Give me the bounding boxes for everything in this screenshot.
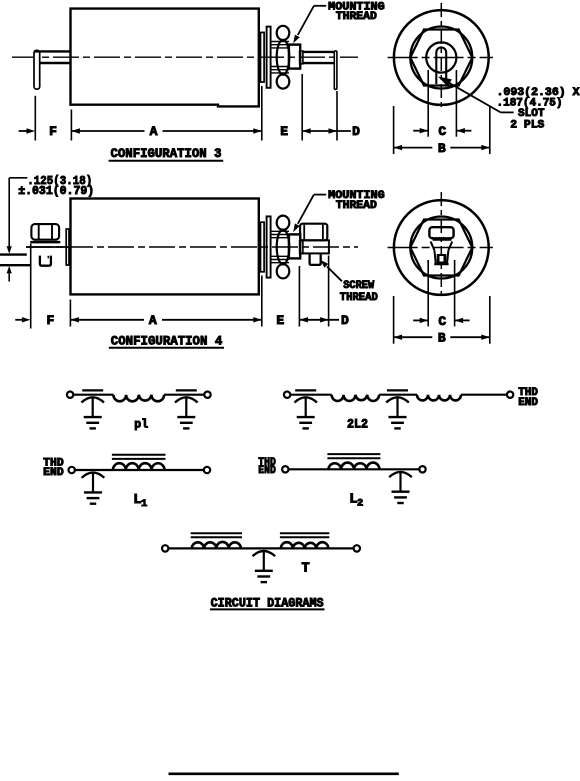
svg-text:A: A bbox=[149, 313, 157, 328]
svg-text:1: 1 bbox=[141, 498, 147, 510]
svg-text:CONFIGURATION 3: CONFIGURATION 3 bbox=[111, 146, 222, 161]
svg-text:C: C bbox=[438, 124, 446, 139]
svg-text:F: F bbox=[46, 313, 54, 328]
svg-text:A: A bbox=[150, 124, 158, 139]
svg-text:THREAD: THREAD bbox=[340, 292, 378, 304]
svg-text:B: B bbox=[438, 331, 446, 346]
svg-text:END: END bbox=[258, 465, 276, 477]
svg-text:E: E bbox=[276, 313, 284, 328]
svg-text:SCREW: SCREW bbox=[343, 280, 374, 292]
svg-text:T: T bbox=[301, 562, 309, 577]
svg-text:±.031(0.79): ±.031(0.79) bbox=[18, 184, 94, 198]
svg-text:2 PLS: 2 PLS bbox=[510, 119, 544, 131]
svg-text:D: D bbox=[352, 124, 360, 139]
svg-text:CONFIGURATION 4: CONFIGURATION 4 bbox=[111, 334, 223, 349]
svg-text:C: C bbox=[438, 314, 446, 329]
svg-text:D: D bbox=[341, 313, 349, 328]
svg-text:B: B bbox=[438, 141, 446, 156]
svg-text:2L2: 2L2 bbox=[347, 418, 368, 432]
svg-text:END: END bbox=[518, 397, 538, 409]
svg-text:pl: pl bbox=[134, 419, 148, 432]
svg-text:THREAD: THREAD bbox=[336, 200, 377, 212]
svg-text:2: 2 bbox=[357, 498, 363, 510]
svg-text:E: E bbox=[280, 124, 288, 139]
svg-text:THREAD: THREAD bbox=[336, 11, 377, 23]
svg-text:F: F bbox=[49, 124, 57, 139]
svg-text:SLOT: SLOT bbox=[518, 108, 545, 120]
svg-text:END: END bbox=[43, 467, 64, 479]
